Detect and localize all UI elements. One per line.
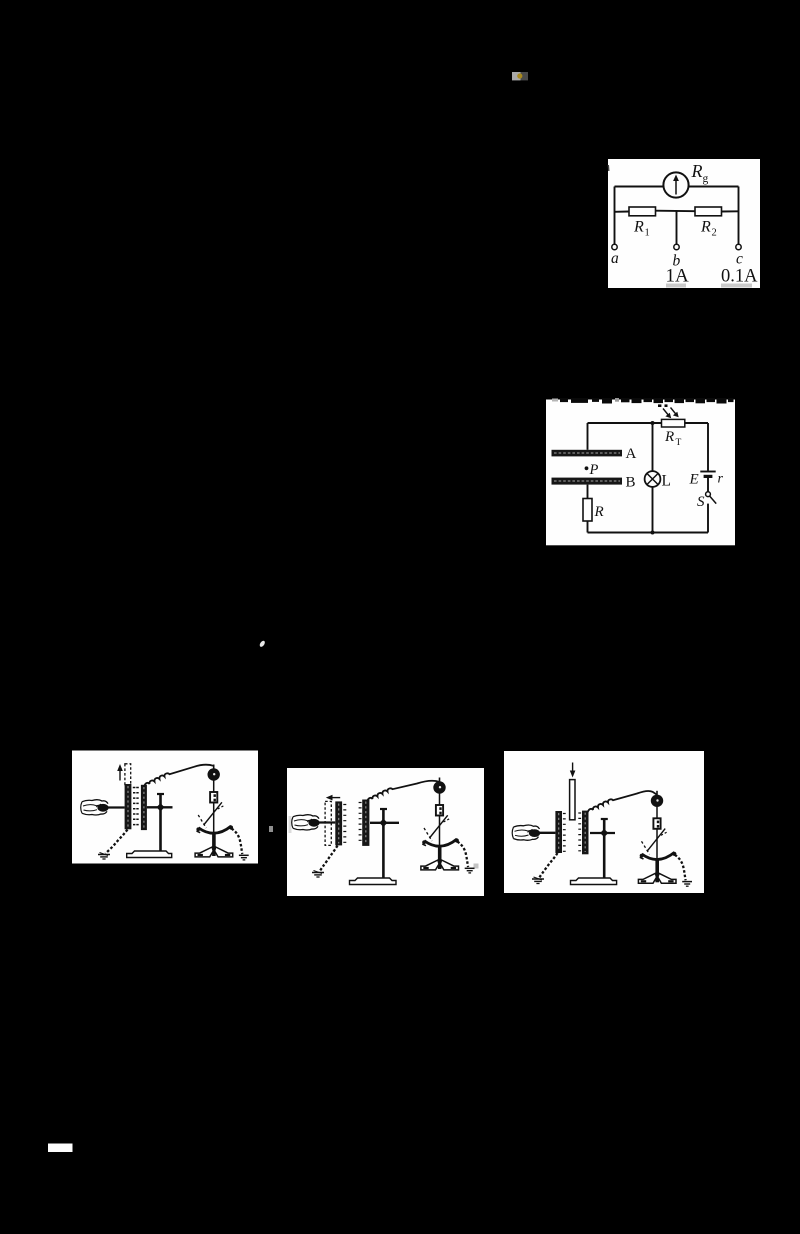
clamp knob	[156, 803, 164, 811]
dashed plate old position	[325, 801, 331, 845]
wire right vertical	[738, 187, 740, 245]
charges on right plate	[359, 803, 362, 841]
charges on left plate	[563, 814, 566, 852]
dielectric slab	[570, 780, 575, 820]
left plate	[335, 801, 342, 845]
ground left	[312, 871, 324, 878]
svg-text:R: R	[700, 219, 711, 236]
stand base	[350, 878, 397, 885]
stand base	[127, 851, 172, 858]
ground left	[98, 853, 110, 860]
plate A	[552, 450, 623, 457]
stand base	[571, 878, 617, 885]
white speck	[259, 640, 266, 648]
hand	[512, 825, 540, 840]
left arrow	[329, 797, 340, 799]
white bar bottom left	[48, 1144, 73, 1153]
PANEL1	[608, 159, 760, 288]
galvanometer Rg	[663, 172, 688, 197]
left plate	[555, 811, 562, 853]
hand	[81, 800, 109, 815]
chain to ground left	[539, 853, 558, 878]
chain to ground left	[320, 846, 338, 872]
dashed plate pulled up	[125, 764, 131, 785]
terminal c	[736, 244, 741, 249]
svg-text:A: A	[626, 446, 637, 462]
wire top right	[689, 186, 739, 188]
electroscope	[195, 765, 249, 860]
edge smudge	[289, 816, 292, 833]
node junction top	[651, 421, 655, 425]
panel background	[608, 159, 760, 288]
resistor R	[583, 499, 592, 522]
left plate	[125, 784, 132, 829]
electroscope	[421, 778, 475, 873]
PANELC	[504, 751, 704, 893]
right plate	[582, 811, 589, 855]
wire middle bus	[615, 211, 739, 212]
speck left of panel B	[269, 826, 273, 832]
rod	[318, 821, 336, 823]
svg-text:B: B	[626, 475, 636, 491]
switch S	[706, 492, 711, 497]
panel background	[72, 751, 258, 864]
edge tick	[607, 165, 610, 171]
right plate	[141, 785, 147, 830]
down arrow	[572, 763, 574, 774]
rod	[107, 806, 125, 808]
wire lamp vertical	[652, 423, 654, 533]
svg-text:g: g	[703, 173, 709, 185]
ARTIFACTS	[48, 72, 528, 1152]
node junction bottom	[651, 531, 655, 535]
resistor R2	[695, 207, 722, 216]
charges on left plate	[343, 805, 346, 843]
smudge	[666, 284, 686, 288]
coil wire to electroscope	[144, 765, 214, 787]
svg-text:P: P	[589, 462, 599, 478]
wire top	[588, 422, 662, 424]
svg-text:2: 2	[712, 228, 717, 239]
wire left vertical	[614, 187, 616, 245]
coil wire to electroscope	[588, 791, 657, 813]
stand post	[603, 820, 606, 879]
wire top left	[615, 186, 664, 188]
wire B to R	[587, 485, 589, 499]
plate B	[552, 478, 623, 485]
clamp knob	[600, 829, 608, 837]
svg-text:r: r	[718, 472, 724, 487]
svg-text:T: T	[676, 438, 682, 448]
resistor R1	[629, 207, 656, 216]
svg-text:E: E	[689, 472, 699, 488]
svg-text:R: R	[664, 429, 674, 445]
electroscope	[638, 791, 692, 886]
wire middle vertical	[676, 211, 678, 244]
ground left	[532, 877, 544, 884]
rod	[538, 832, 555, 834]
panel background	[546, 400, 735, 546]
field dashes	[133, 788, 139, 825]
lamp L	[645, 471, 661, 487]
panel background	[287, 768, 484, 896]
stand post	[159, 795, 162, 852]
svg-text:R: R	[691, 161, 703, 181]
PANEL2	[546, 398, 735, 545]
terminal a	[612, 244, 617, 249]
svg-text:L: L	[662, 473, 671, 490]
coil wire to electroscope	[367, 781, 439, 802]
stand post	[382, 810, 385, 878]
wire bottom	[588, 532, 709, 534]
panel background	[504, 751, 704, 893]
svg-text:R: R	[633, 219, 644, 236]
wire left vertical	[587, 423, 589, 450]
rod to clamp	[147, 806, 173, 808]
photoresistor RT	[662, 419, 685, 427]
battery E r	[700, 471, 715, 473]
hand	[292, 815, 320, 830]
wire R to bottom	[587, 521, 589, 533]
svg-text:1: 1	[645, 228, 650, 239]
up arrow	[119, 768, 121, 781]
clamp bar	[370, 822, 399, 824]
terminal b	[674, 244, 679, 249]
redacted text band	[552, 398, 734, 407]
clamp bar	[590, 832, 615, 834]
wire right vertical	[707, 423, 709, 471]
PANELB	[287, 768, 484, 896]
charges on right plate	[578, 813, 581, 851]
wire battery to switch	[707, 478, 709, 492]
PANELA	[72, 751, 258, 864]
svg-text:a: a	[611, 250, 619, 267]
wire switch to bottom	[707, 504, 709, 533]
point P	[585, 466, 589, 470]
right plate	[362, 800, 369, 846]
svg-text:S: S	[697, 494, 705, 510]
clamp knob	[379, 819, 387, 827]
svg-text:1A: 1A	[666, 266, 690, 287]
svg-text:R: R	[594, 504, 604, 520]
chain to ground left	[106, 830, 128, 854]
svg-text:c: c	[736, 251, 743, 268]
gray mark top	[512, 72, 521, 80]
